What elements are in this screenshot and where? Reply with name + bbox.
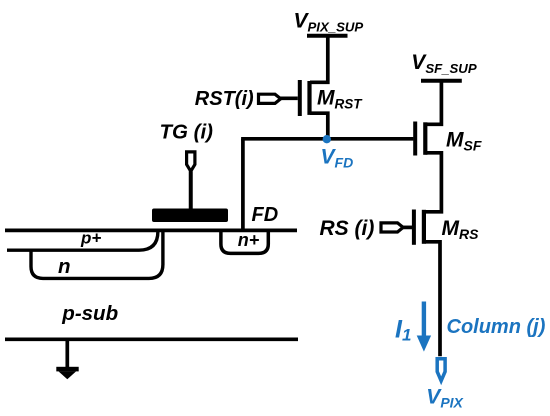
svg-text:FD: FD — [252, 204, 279, 226]
output flag V_PIX (blue) — [437, 359, 445, 381]
svg-text:VPIX_SUP: VPIX_SUP — [294, 9, 364, 34]
input flag RST(i) — [259, 94, 281, 103]
gate electrode TG (filled) — [152, 209, 228, 223]
ground symbol — [56, 367, 78, 379]
svg-text:n: n — [58, 255, 71, 278]
svg-text:VFD: VFD — [321, 145, 354, 170]
p+ pinning layer boundary — [7, 231, 158, 250]
wire M_RST gate lead — [280, 96, 298, 100]
node V_FD junction dot — [323, 135, 331, 143]
transistor M_RST gate bar — [298, 80, 302, 116]
svg-text:MRST: MRST — [317, 87, 363, 112]
wire M_RS source to column — [426, 242, 441, 356]
svg-text:RS (i): RS (i) — [320, 217, 375, 240]
wire M_RS gate lead — [403, 226, 412, 230]
substrate bottom line — [5, 337, 298, 341]
n+ diffusion FD well — [221, 230, 268, 253]
svg-text:I1: I1 — [395, 316, 411, 345]
n photodiode well boundary — [31, 231, 163, 278]
supply rail V_SF_SUP bar — [421, 79, 462, 83]
transistor M_RS gate bar — [412, 210, 416, 245]
wire TG stem — [189, 171, 193, 209]
transistor M_SF gate bar — [413, 122, 417, 156]
input flag RS (i) — [381, 223, 403, 232]
wire V_PIX_SUP to M_RST drain — [310, 36, 328, 83]
svg-text:Column (j): Column (j) — [447, 316, 546, 338]
current arrow I1 — [417, 302, 431, 352]
svg-text:MRS: MRS — [442, 217, 480, 242]
svg-text:VPIX: VPIX — [426, 385, 464, 410]
wire FD contact to node V_FD — [241, 139, 245, 230]
wire node V_FD horizontal — [241, 137, 413, 141]
svg-text:p-sub: p-sub — [61, 302, 118, 325]
transistor M_SF channel — [423, 122, 427, 155]
svg-text:n+: n+ — [238, 230, 260, 250]
flag TG (i) — [187, 152, 195, 171]
wire ground stub — [65, 339, 69, 367]
svg-text:MSF: MSF — [446, 129, 482, 154]
supply rail V_PIX_SUP bar — [307, 34, 348, 38]
wire M_SF source to M_RS drain — [426, 153, 442, 212]
svg-text:RST(i): RST(i) — [195, 88, 254, 110]
svg-text:TG (i): TG (i) — [160, 120, 214, 143]
wire V_SF_SUP to M_SF drain — [426, 81, 442, 125]
wire M_RST source to node V_FD — [310, 113, 328, 139]
transistor M_RS channel — [422, 210, 426, 244]
svg-text:VSF_SUP: VSF_SUP — [411, 51, 477, 76]
transistor M_RST channel — [307, 81, 311, 115]
silicon surface line — [5, 229, 297, 233]
svg-text:p+: p+ — [80, 229, 101, 248]
